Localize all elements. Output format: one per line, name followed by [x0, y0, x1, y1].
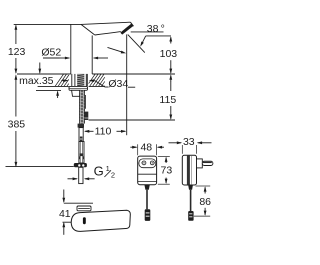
power supply front cable connector	[145, 209, 151, 221]
side body shading band	[187, 156, 190, 185]
dimension 123	[15, 24, 18, 29]
power supply front seam lines	[138, 173, 157, 175]
svg-text:110: 110	[95, 126, 112, 138]
svg-text:115: 115	[159, 94, 176, 106]
svg-text:G: G	[94, 164, 104, 179]
plug base	[197, 159, 203, 168]
385 bottom extension line	[6, 166, 74, 168]
dimension 110	[84, 130, 89, 133]
G1/2 connection tube	[79, 167, 83, 183]
spout outlet vertical extension line	[126, 34, 128, 135]
faucet spout plate top edge	[81, 22, 130, 24]
extension line hose connector to chain	[89, 119, 175, 121]
svg-text:max.35: max.35	[19, 75, 54, 87]
hose end nut	[74, 163, 87, 167]
svg-text:Ø52: Ø52	[41, 47, 61, 59]
hose upper guide line	[85, 95, 87, 109]
dimension 103	[169, 36, 172, 41]
countertop hatching left	[55, 74, 64, 86]
power supply front cable stub	[144, 185, 149, 190]
48 extension lines	[137, 144, 139, 155]
dimension chain middle arrows	[169, 69, 172, 74]
riser tube upper section	[79, 128, 83, 142]
riser tube joint bands	[80, 137, 83, 142]
washer below counter	[69, 86, 88, 90]
svg-text:385: 385	[8, 119, 26, 131]
threaded rod dark core	[77, 74, 84, 86]
svg-text:73: 73	[161, 165, 173, 177]
faucet spout outlet dark wedge	[120, 24, 133, 35]
41 top extension line	[64, 202, 93, 204]
angle stream diagonal line	[128, 35, 145, 53]
86 bottom extension line	[194, 215, 210, 217]
socket pin hole left	[142, 161, 146, 165]
countertop hatching right	[89, 74, 96, 84]
countertop bottom line	[38, 85, 69, 87]
41 bottom extension line	[63, 221, 72, 223]
faucet body right edge	[91, 35, 93, 74]
svg-text:103: 103	[160, 48, 178, 60]
svg-text:48: 48	[140, 141, 152, 153]
hose end crimp	[78, 124, 84, 128]
plug prong	[202, 161, 213, 165]
dimension diameter 34 arrows	[63, 79, 68, 82]
dimension 41	[62, 198, 65, 203]
svg-text:2: 2	[111, 170, 115, 179]
33 extension lines	[181, 145, 183, 154]
hose side connector block	[84, 112, 88, 120]
svg-text:Ø34: Ø34	[108, 78, 128, 90]
angle leader to vertical line	[108, 47, 123, 52]
103 top extension shelf line	[146, 35, 171, 37]
faucet head chamfer	[81, 24, 95, 35]
faucet top extension line	[14, 23, 81, 25]
power supply side cable	[190, 190, 192, 211]
angle leader to stream line	[142, 36, 146, 44]
fixing nut below washer	[72, 90, 81, 96]
mounting shank outer lines	[71, 74, 73, 86]
faucet spout plate bottom edge	[95, 32, 121, 35]
max.35 lower extent line	[36, 89, 61, 91]
power supply socket face plate	[139, 159, 156, 168]
svg-text:33: 33	[183, 136, 195, 148]
power supply front body	[138, 156, 157, 185]
diameter 34 leader elbow	[95, 81, 105, 87]
power supply side body	[182, 155, 196, 185]
svg-text:41: 41	[59, 208, 71, 220]
top view faucet body capsule	[71, 210, 130, 231]
dimension 385	[15, 74, 18, 79]
G1/2 thread arrows	[73, 177, 78, 180]
svg-text:123: 123	[8, 46, 26, 58]
countertop top surface line	[17, 73, 71, 75]
svg-text:38 °: 38 °	[147, 23, 165, 35]
power supply side cable stub	[188, 185, 193, 190]
dimension 86	[196, 185, 211, 187]
socket pin hole right	[150, 161, 154, 165]
riser tube inner dark block	[80, 153, 83, 156]
dimension 73	[158, 155, 170, 157]
angle label shelf line	[131, 31, 164, 33]
riser tube lower section	[79, 142, 84, 164]
top view sensor window slot	[83, 217, 86, 224]
dimension 115	[170, 82, 172, 91]
svg-text:86: 86	[199, 196, 211, 208]
power supply front cable	[146, 190, 148, 210]
power supply side cable connector	[188, 211, 193, 221]
riser tube thread marks	[79, 156, 80, 159]
supply hose braided strip	[80, 90, 85, 123]
top view spout tab	[77, 206, 91, 211]
faucet body left edge	[70, 24, 72, 74]
